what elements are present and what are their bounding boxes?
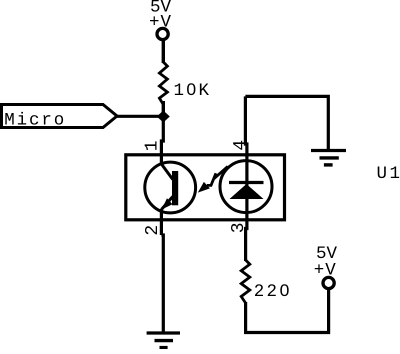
junction node (solid diamond) [157, 111, 170, 123]
wire terminal to R1 [162, 40, 165, 63]
zero counter patch (10K) [189, 87, 193, 91]
resistor R2 220 zigzag [241, 260, 250, 303]
wire flag to node [115, 115, 163, 118]
wire R2 to bottom run [246, 289, 329, 333]
zero counter patch (220) [283, 288, 287, 292]
phototransistor collector lead [161, 164, 172, 180]
ground bottom line1 [147, 331, 180, 334]
light arrowhead [198, 182, 210, 193]
wire node to pin1 (with jog) [161, 117, 163, 166]
LED cathode bar [229, 181, 264, 184]
svg-text:220: 220 [254, 282, 292, 302]
flag Micro (pointer outline) [2, 105, 118, 128]
wire pin2 to ground (with jog) [161, 235, 163, 332]
LED through wire [245, 161, 248, 213]
ground bottom line3 [160, 346, 168, 349]
resistor R1 10K zigzag [159, 62, 167, 105]
svg-text:10K: 10K [174, 81, 212, 101]
phototransistor circle [145, 162, 196, 213]
wire top horizontal run to ground [245, 96, 328, 150]
wire pin2 inside box [160, 209, 163, 235]
ground top line3 [324, 163, 333, 166]
LED triangle (anode, pointing up) [230, 184, 264, 199]
wire pin4 up (with jog) [245, 96, 247, 162]
wire pin3 down (with jog) [246, 212, 247, 261]
wire R1 to node [162, 101, 165, 117]
svg-text:+V: +V [314, 261, 337, 281]
LED circle [220, 161, 272, 213]
svg-text:Micro: Micro [4, 111, 66, 131]
terminal +V bottom (open circle) [323, 277, 334, 288]
phototransistor emitter lead [161, 197, 172, 210]
ground top line1 [311, 149, 346, 152]
ground top line2 [320, 156, 339, 159]
light arrow shaft (zigzag bolt) [207, 166, 228, 185]
phototransistor emitter arrowhead [162, 198, 173, 209]
svg-text:2: 2 [143, 225, 163, 236]
svg-text:U1: U1 [377, 164, 400, 184]
ground bottom line2 [155, 339, 174, 342]
phototransistor body bar [172, 171, 178, 205]
terminal +V top (open circle) [157, 28, 168, 39]
svg-text:1: 1 [143, 140, 163, 151]
optocoupler U1 body rectangle [126, 155, 285, 220]
